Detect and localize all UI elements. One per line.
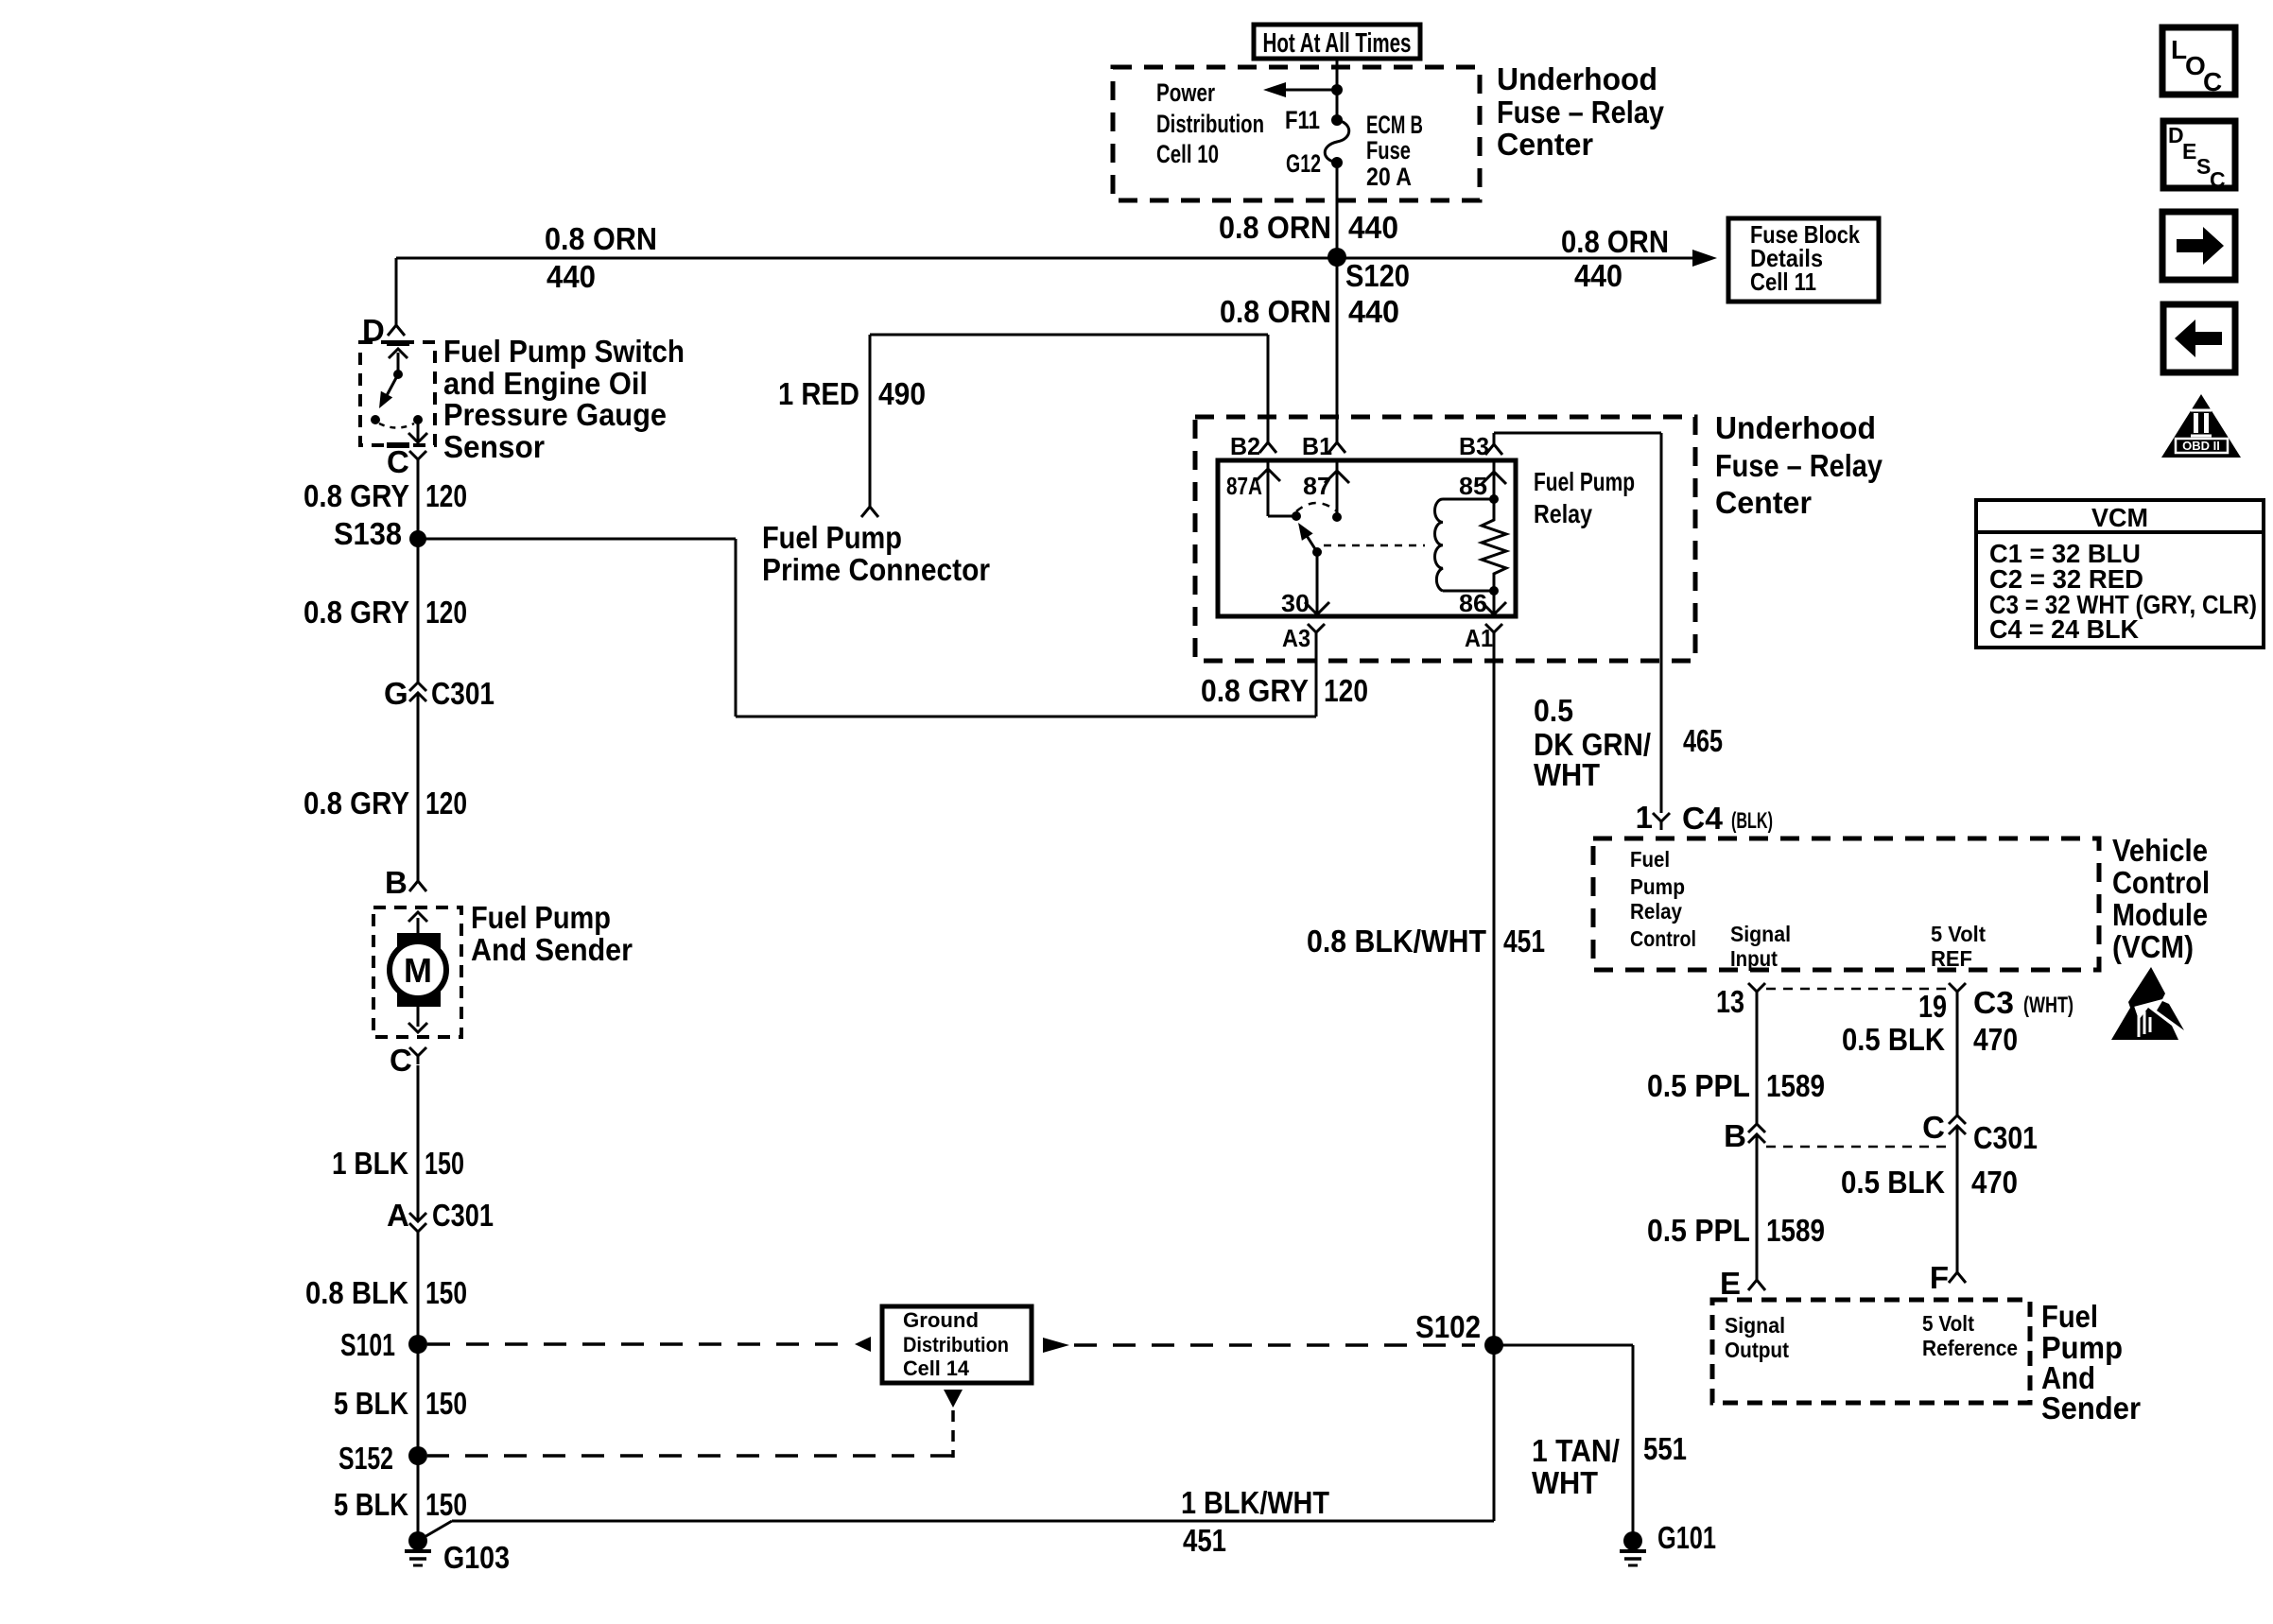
svg-text:Fuel Pump: Fuel Pump xyxy=(471,900,611,935)
svg-text:B1: B1 xyxy=(1302,432,1332,460)
svg-text:13: 13 xyxy=(1716,984,1744,1019)
svg-text:WHT: WHT xyxy=(1534,757,1600,792)
svg-text:440: 440 xyxy=(1348,294,1399,329)
svg-text:30: 30 xyxy=(1281,589,1310,617)
svg-text:C301: C301 xyxy=(431,676,495,711)
svg-text:C: C xyxy=(387,444,409,479)
svg-text:0.5 PPL: 0.5 PPL xyxy=(1647,1068,1750,1103)
svg-text:Prime Connector: Prime Connector xyxy=(762,552,990,587)
svg-text:0.8 BLK: 0.8 BLK xyxy=(305,1275,408,1310)
svg-text:465: 465 xyxy=(1683,723,1723,758)
svg-text:Input: Input xyxy=(1730,946,1778,971)
svg-text:5 Volt: 5 Volt xyxy=(1922,1311,1974,1336)
svg-text:C: C xyxy=(390,1043,412,1078)
svg-text:Fuel: Fuel xyxy=(2041,1299,2098,1334)
svg-text:0.8 ORN: 0.8 ORN xyxy=(1219,210,1331,245)
svg-text:B2: B2 xyxy=(1230,432,1260,460)
svg-text:1 BLK: 1 BLK xyxy=(332,1146,408,1181)
svg-text:0.8 GRY: 0.8 GRY xyxy=(304,595,409,630)
svg-text:F: F xyxy=(1930,1260,1949,1295)
svg-text:A: A xyxy=(387,1198,409,1233)
svg-text:0.8 GRY: 0.8 GRY xyxy=(1201,673,1309,708)
svg-text:Signal: Signal xyxy=(1725,1313,1785,1338)
svg-text:0.8 ORN: 0.8 ORN xyxy=(545,221,657,256)
svg-text:Sender: Sender xyxy=(2041,1391,2141,1425)
svg-text:Fuel: Fuel xyxy=(1630,847,1670,872)
svg-text:Sensor: Sensor xyxy=(443,429,545,464)
svg-text:Pump: Pump xyxy=(1630,874,1685,899)
svg-text:C301: C301 xyxy=(1973,1120,2038,1155)
svg-text:Distribution: Distribution xyxy=(1156,110,1264,138)
svg-text:E: E xyxy=(1720,1266,1741,1301)
svg-text:551: 551 xyxy=(1643,1431,1687,1466)
svg-text:20 A: 20 A xyxy=(1366,163,1412,191)
svg-text:G: G xyxy=(384,676,408,711)
svg-text:S102: S102 xyxy=(1415,1309,1481,1344)
svg-text:Control: Control xyxy=(2112,865,2210,900)
svg-text:Relay: Relay xyxy=(1630,899,1682,924)
svg-text:1: 1 xyxy=(1636,800,1653,835)
svg-text:1 TAN/: 1 TAN/ xyxy=(1532,1433,1620,1468)
svg-text:Reference: Reference xyxy=(1922,1336,2018,1360)
svg-text:85: 85 xyxy=(1459,472,1487,500)
svg-text:B3: B3 xyxy=(1459,432,1489,460)
svg-text:Output: Output xyxy=(1725,1338,1789,1362)
svg-text:Fuel Pump: Fuel Pump xyxy=(762,520,902,555)
svg-text:120: 120 xyxy=(425,478,467,513)
svg-text:Relay: Relay xyxy=(1534,499,1592,528)
svg-text:C301: C301 xyxy=(432,1198,494,1233)
svg-text:C: C xyxy=(2210,167,2226,192)
svg-text:150: 150 xyxy=(425,1487,467,1522)
svg-text:120: 120 xyxy=(1324,673,1368,708)
svg-text:0.8 ORN: 0.8 ORN xyxy=(1561,224,1669,259)
svg-text:OBD II: OBD II xyxy=(2182,439,2220,453)
svg-text:120: 120 xyxy=(425,595,467,630)
svg-text:120: 120 xyxy=(425,786,467,821)
svg-text:and Engine Oil: and Engine Oil xyxy=(443,366,648,401)
svg-text:B: B xyxy=(1724,1118,1746,1153)
svg-text:5 Volt: 5 Volt xyxy=(1931,922,1986,946)
svg-text:Cell 11: Cell 11 xyxy=(1750,268,1816,296)
svg-text:Module: Module xyxy=(2112,897,2208,932)
svg-text:Fuse: Fuse xyxy=(1366,136,1411,164)
svg-text:Hot At All Times: Hot At All Times xyxy=(1263,28,1412,59)
svg-text:470: 470 xyxy=(1973,1022,2018,1057)
svg-text:VCM: VCM xyxy=(2091,503,2148,532)
svg-text:451: 451 xyxy=(1503,924,1545,959)
svg-text:D: D xyxy=(362,313,385,348)
svg-text:87: 87 xyxy=(1303,472,1331,500)
svg-text:0.5 PPL: 0.5 PPL xyxy=(1647,1213,1750,1248)
svg-text:Pressure Gauge: Pressure Gauge xyxy=(443,397,667,432)
svg-text:ECM B: ECM B xyxy=(1366,111,1423,139)
svg-text:150: 150 xyxy=(425,1275,467,1310)
svg-text:Center: Center xyxy=(1497,127,1593,162)
svg-text:0.5: 0.5 xyxy=(1534,693,1573,728)
svg-text:Fuse – Relay: Fuse – Relay xyxy=(1715,448,1883,483)
svg-text:Fuel Pump Switch: Fuel Pump Switch xyxy=(443,334,685,369)
svg-text:And Sender: And Sender xyxy=(471,932,633,967)
svg-text:C3: C3 xyxy=(1973,985,2014,1020)
svg-text:(WHT): (WHT) xyxy=(2023,993,2073,1018)
svg-text:150: 150 xyxy=(425,1146,464,1181)
svg-text:Cell 10: Cell 10 xyxy=(1156,140,1219,168)
svg-text:C: C xyxy=(1922,1110,1945,1145)
svg-text:0.8 GRY: 0.8 GRY xyxy=(304,786,409,821)
svg-text:19: 19 xyxy=(1918,989,1947,1024)
svg-text:150: 150 xyxy=(425,1386,467,1421)
svg-text:0.8 BLK/WHT: 0.8 BLK/WHT xyxy=(1307,924,1486,959)
svg-text:S152: S152 xyxy=(338,1441,393,1476)
svg-text:(VCM): (VCM) xyxy=(2112,929,2194,964)
svg-text:Ground: Ground xyxy=(903,1308,979,1332)
svg-text:1 RED: 1 RED xyxy=(778,376,859,411)
svg-text:B: B xyxy=(385,865,408,900)
svg-text:F11: F11 xyxy=(1285,106,1320,134)
svg-text:A3: A3 xyxy=(1282,624,1310,652)
svg-text:5 BLK: 5 BLK xyxy=(334,1487,408,1522)
svg-text:451: 451 xyxy=(1183,1523,1226,1558)
svg-text:S120: S120 xyxy=(1345,258,1410,293)
svg-text:Fuel Pump: Fuel Pump xyxy=(1534,467,1635,496)
svg-text:1 BLK/WHT: 1 BLK/WHT xyxy=(1181,1485,1329,1520)
svg-text:G101: G101 xyxy=(1657,1520,1716,1555)
svg-text:M: M xyxy=(404,951,432,990)
svg-text:C4 = 24 BLK: C4 = 24 BLK xyxy=(1989,614,2139,644)
svg-text:Control: Control xyxy=(1630,926,1696,951)
svg-text:C4: C4 xyxy=(1682,801,1724,836)
svg-text:Distribution: Distribution xyxy=(903,1333,1009,1356)
svg-text:Underhood: Underhood xyxy=(1715,410,1876,445)
svg-text:0.5 BLK: 0.5 BLK xyxy=(1842,1022,1945,1057)
svg-text:Vehicle: Vehicle xyxy=(2112,833,2208,868)
svg-text:1589: 1589 xyxy=(1766,1213,1825,1248)
svg-text:Cell 14: Cell 14 xyxy=(903,1356,970,1380)
svg-text:C: C xyxy=(2203,67,2222,96)
svg-text:G103: G103 xyxy=(443,1540,510,1575)
svg-text:0.8 ORN: 0.8 ORN xyxy=(1220,294,1331,329)
svg-text:Power: Power xyxy=(1156,78,1215,107)
svg-text:Underhood: Underhood xyxy=(1497,61,1657,96)
svg-text:Fuse – Relay: Fuse – Relay xyxy=(1497,95,1665,130)
svg-text:1589: 1589 xyxy=(1766,1068,1825,1103)
svg-text:490: 490 xyxy=(878,376,926,411)
svg-text:Signal: Signal xyxy=(1730,922,1791,946)
svg-text:G12: G12 xyxy=(1286,149,1321,178)
svg-text:S138: S138 xyxy=(334,516,402,551)
svg-text:E: E xyxy=(2182,139,2196,164)
svg-text:440: 440 xyxy=(1574,258,1622,293)
svg-text:440: 440 xyxy=(1348,210,1398,245)
svg-text:Center: Center xyxy=(1715,485,1812,520)
svg-text:87A: 87A xyxy=(1226,472,1262,500)
svg-text:REF: REF xyxy=(1931,946,1972,971)
svg-text:0.5 BLK: 0.5 BLK xyxy=(1841,1165,1945,1200)
svg-text:86: 86 xyxy=(1459,589,1487,617)
svg-text:(BLK): (BLK) xyxy=(1731,808,1773,834)
svg-text:470: 470 xyxy=(1971,1165,2018,1200)
svg-text:S101: S101 xyxy=(340,1327,395,1362)
svg-text:A1: A1 xyxy=(1465,624,1493,652)
svg-text:0.8 GRY: 0.8 GRY xyxy=(304,478,409,513)
svg-text:5 BLK: 5 BLK xyxy=(334,1386,408,1421)
svg-text:440: 440 xyxy=(547,259,596,294)
svg-text:WHT: WHT xyxy=(1532,1465,1598,1500)
